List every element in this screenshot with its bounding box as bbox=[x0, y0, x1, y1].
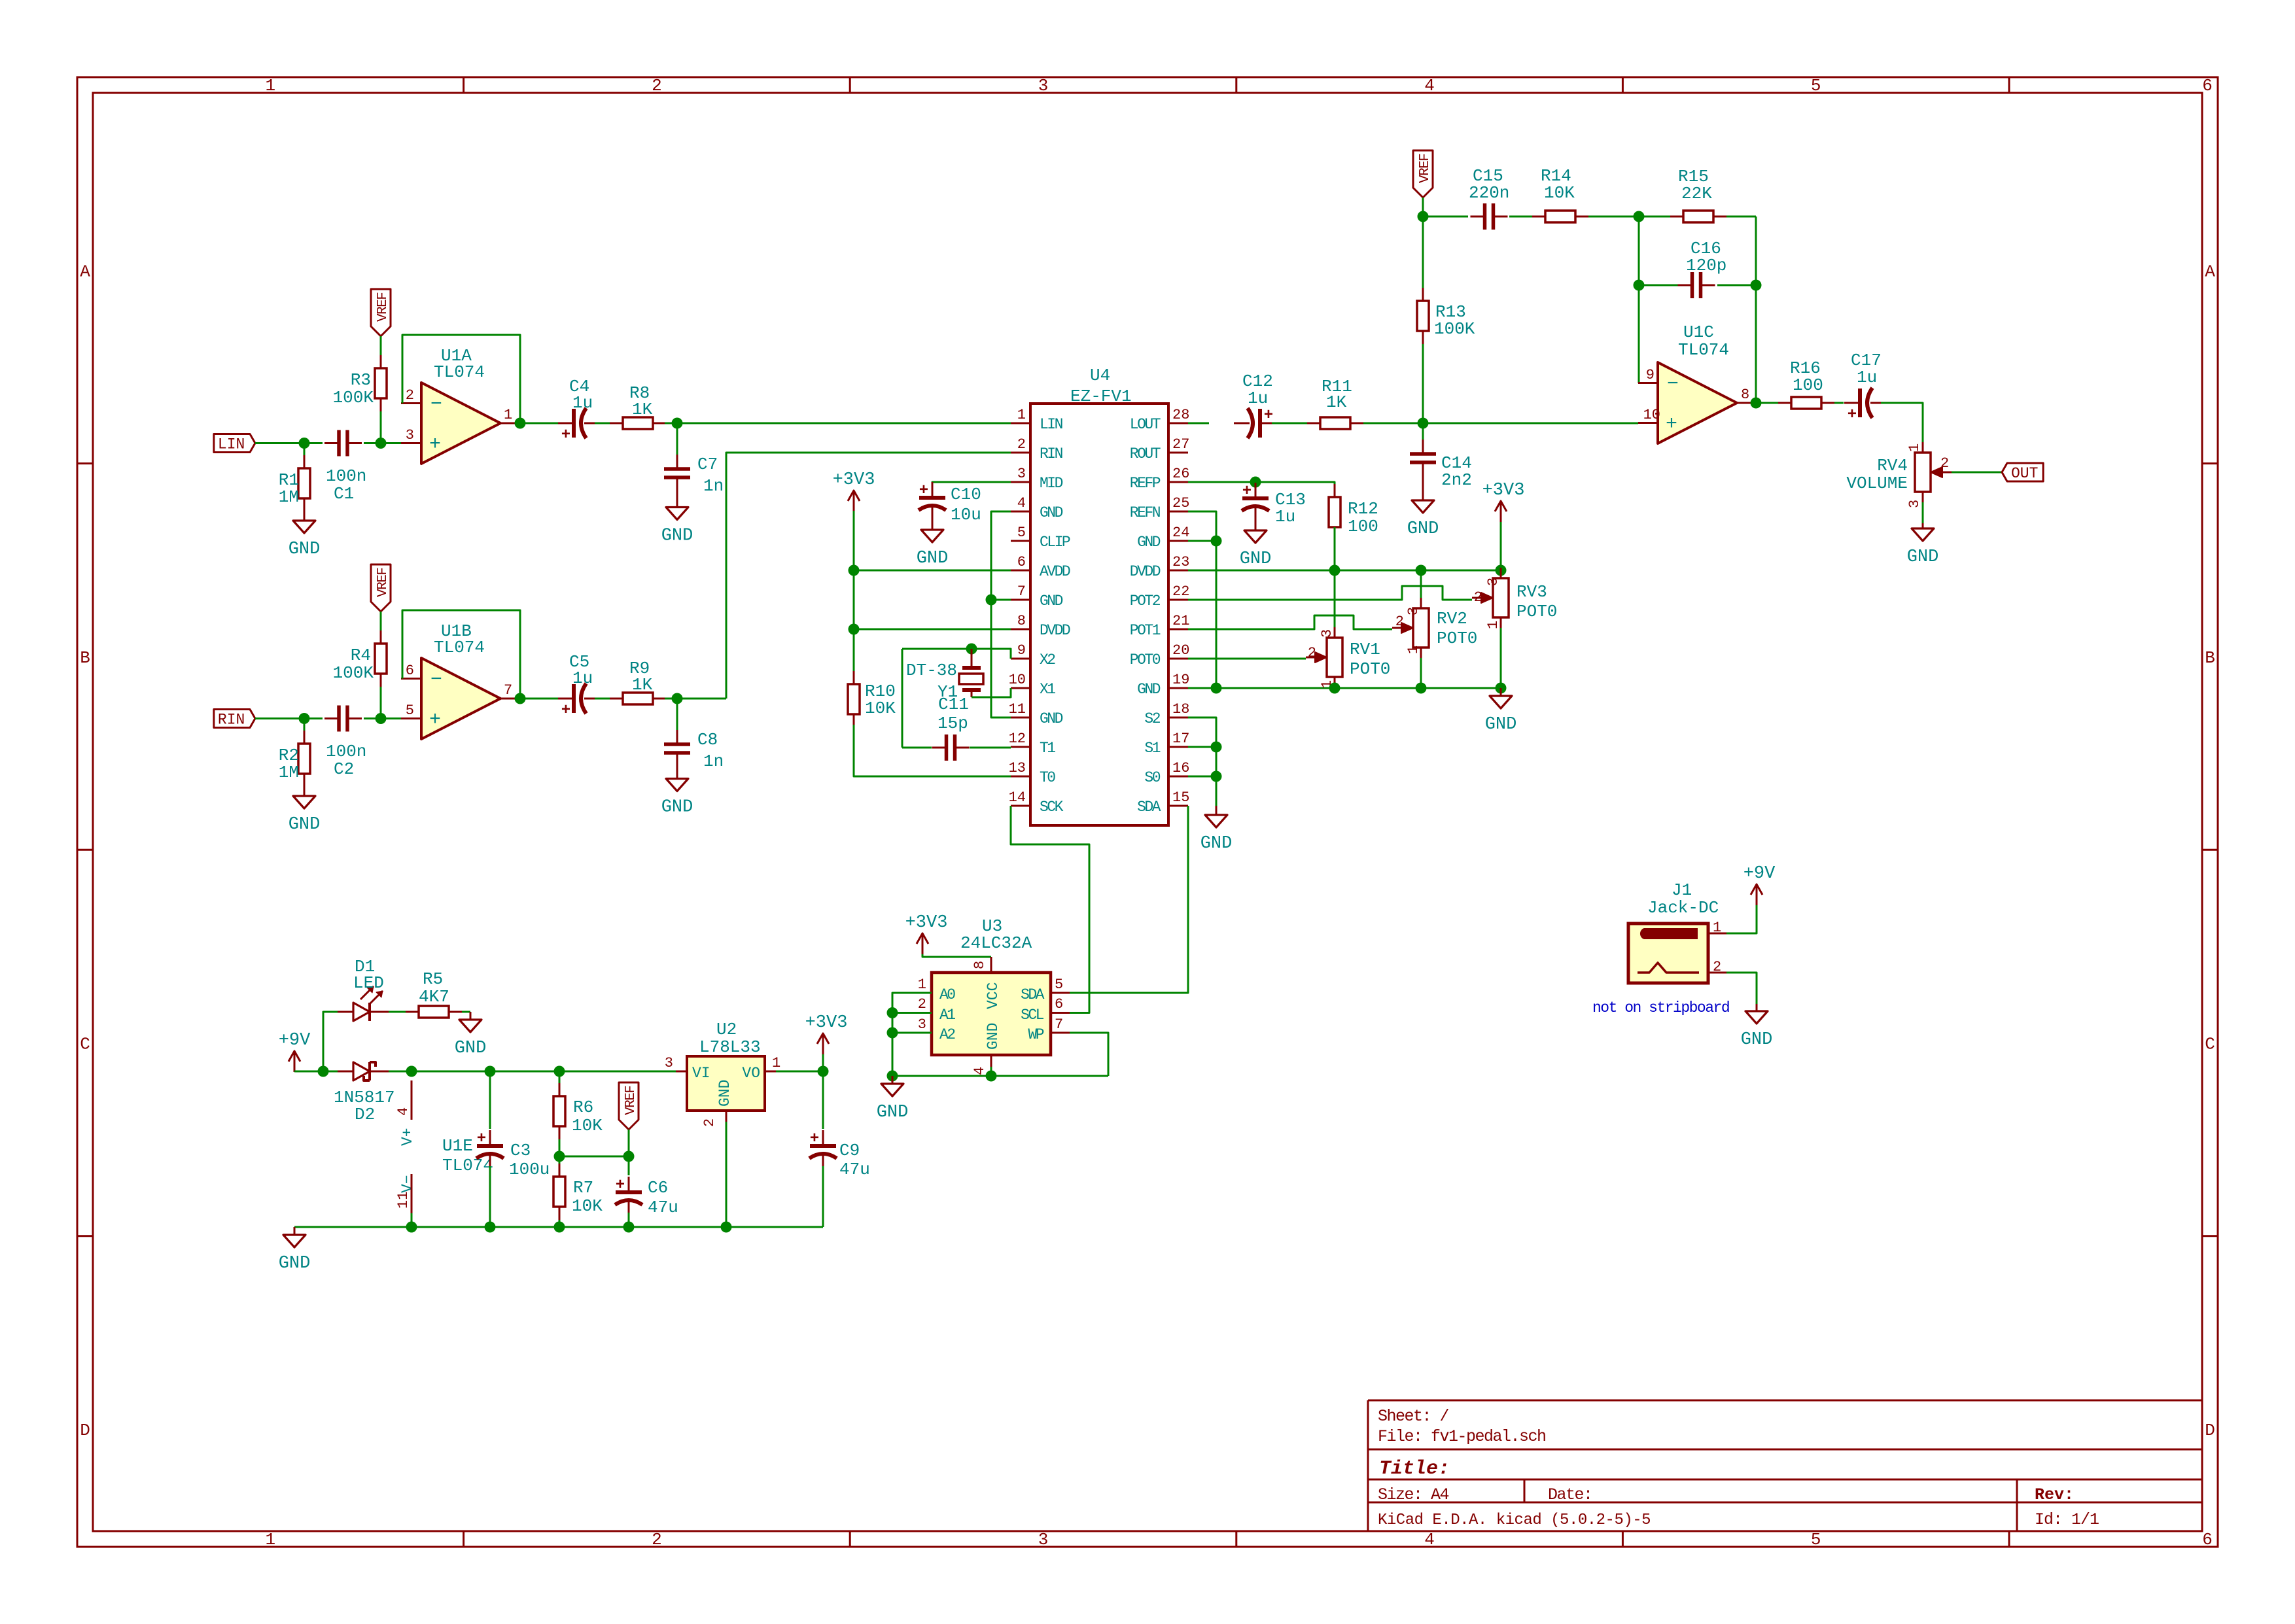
junction +3V3 out bbox=[818, 1066, 829, 1077]
svg-text:10u: 10u bbox=[951, 505, 981, 525]
ground below R2 bbox=[304, 787, 306, 796]
resistor R12 bbox=[1334, 484, 1336, 497]
J1 switch contact bbox=[1638, 963, 1699, 973]
svg-text:1: 1 bbox=[1906, 443, 1923, 452]
svg-text:GND: GND bbox=[289, 815, 321, 835]
svg-text:1u: 1u bbox=[1857, 368, 1877, 387]
junction R12 bottom bbox=[1329, 565, 1340, 576]
svg-text:+3V3: +3V3 bbox=[1482, 481, 1525, 500]
svg-text:GND: GND bbox=[455, 1039, 487, 1058]
svg-text:not on stripboard: not on stripboard bbox=[1592, 999, 1729, 1016]
svg-text:C7: C7 bbox=[697, 455, 718, 474]
svg-text:+: + bbox=[1242, 483, 1252, 500]
capacitor C13 (polarized) bbox=[1255, 482, 1257, 485]
svg-text:4: 4 bbox=[972, 1067, 988, 1075]
svg-text:DVDD: DVDD bbox=[1040, 622, 1070, 639]
svg-text:1M: 1M bbox=[279, 487, 299, 507]
resistor R13 bbox=[1422, 216, 1424, 288]
svg-text:VREF: VREF bbox=[376, 568, 391, 597]
svg-text:SDA: SDA bbox=[1137, 799, 1161, 816]
junction C16 left bbox=[1634, 280, 1645, 291]
svg-text:GND: GND bbox=[917, 549, 949, 568]
svg-text:+3V3: +3V3 bbox=[805, 1013, 848, 1033]
wire GND pin19 rail bbox=[1188, 687, 1501, 689]
capacitor C9 (polarized) bbox=[822, 1071, 824, 1129]
svg-text:15: 15 bbox=[1172, 789, 1189, 806]
svg-text:Date:: Date: bbox=[1548, 1485, 1592, 1504]
U1C pin 8 stub bbox=[1737, 402, 1756, 404]
wire R16 to C17 bbox=[1834, 402, 1844, 404]
svg-text:18: 18 bbox=[1172, 701, 1189, 717]
U4 pin 13 (T0) bbox=[1011, 776, 1030, 778]
svg-text:1u: 1u bbox=[1248, 389, 1268, 408]
svg-text:+: + bbox=[919, 482, 928, 500]
svg-text:MID: MID bbox=[1040, 475, 1063, 492]
svg-text:+: + bbox=[1264, 407, 1273, 424]
op-amp U1E power pins bbox=[411, 1080, 413, 1120]
svg-text:DVDD: DVDD bbox=[1130, 563, 1161, 580]
svg-text:1n: 1n bbox=[703, 476, 724, 496]
U3 pin 6 (SCL) bbox=[1051, 1012, 1070, 1014]
U4 pin 4 (GND) bbox=[1011, 511, 1030, 513]
wire J1 pin1 to +9V bbox=[1726, 905, 1757, 933]
svg-text:4K7: 4K7 bbox=[419, 987, 449, 1007]
U1B feedback wire bbox=[402, 610, 520, 699]
U4 pin 19 (GND) bbox=[1168, 687, 1188, 689]
junction AVDD bbox=[849, 565, 860, 576]
wire LED branch bbox=[323, 1012, 338, 1071]
svg-text:1: 1 bbox=[918, 976, 926, 993]
svg-text:GND: GND bbox=[1407, 519, 1439, 539]
svg-text:3: 3 bbox=[1405, 607, 1422, 615]
svg-text:RIN: RIN bbox=[1040, 445, 1062, 462]
capacitor C11 bbox=[932, 747, 947, 749]
left feedback leg to pin9 bbox=[1638, 216, 1640, 383]
svg-text:19: 19 bbox=[1172, 672, 1189, 688]
svg-text:+: + bbox=[1666, 413, 1677, 436]
junction R13/C14 node bbox=[1418, 418, 1429, 429]
U4 pin 8 (DVDD) bbox=[1011, 629, 1030, 631]
svg-text:GND: GND bbox=[716, 1080, 733, 1107]
ground below R1 bbox=[304, 511, 306, 521]
svg-text:20: 20 bbox=[1172, 642, 1189, 659]
global label OUT bbox=[2002, 463, 2043, 481]
wire C17 to RV4 bbox=[1881, 403, 1923, 442]
capacitor C1 bbox=[324, 442, 339, 444]
svg-text:100K: 100K bbox=[333, 663, 374, 683]
svg-text:120p: 120p bbox=[1686, 256, 1726, 275]
svg-text:D: D bbox=[80, 1421, 90, 1440]
power +3V3 (U3) bbox=[922, 933, 924, 954]
svg-text:1: 1 bbox=[1485, 621, 1501, 629]
svg-text:EZ-FV1: EZ-FV1 bbox=[1070, 387, 1132, 406]
svg-text:C9: C9 bbox=[839, 1141, 860, 1160]
U1A pin 2 stub bbox=[401, 402, 421, 404]
wire MID to C10 bbox=[932, 482, 1011, 484]
svg-text:V+: V+ bbox=[399, 1128, 416, 1146]
svg-text:VO: VO bbox=[742, 1065, 760, 1082]
svg-text:4: 4 bbox=[395, 1107, 412, 1116]
svg-text:RIN: RIN bbox=[218, 712, 245, 729]
wire RIN to C2 bbox=[255, 717, 323, 719]
svg-text:2: 2 bbox=[1017, 436, 1026, 453]
svg-text:A1: A1 bbox=[939, 1007, 955, 1024]
U4 pin 14 (SCK) bbox=[1011, 805, 1030, 807]
svg-text:14: 14 bbox=[1009, 789, 1026, 806]
wire AVDD pin6 bbox=[854, 570, 1011, 572]
junction R15 left bbox=[1634, 211, 1645, 222]
svg-text:RV3: RV3 bbox=[1516, 582, 1547, 602]
svg-text:4: 4 bbox=[1424, 76, 1435, 95]
capacitor C15 bbox=[1471, 216, 1485, 218]
svg-text:10: 10 bbox=[1009, 672, 1026, 688]
wire U3 ground rail bbox=[892, 1075, 1108, 1077]
resistor R1 bbox=[304, 455, 306, 468]
svg-text:2: 2 bbox=[1308, 645, 1316, 661]
svg-text:27: 27 bbox=[1172, 436, 1189, 453]
svg-text:POT2: POT2 bbox=[1130, 593, 1161, 610]
junction U1A output bbox=[515, 418, 526, 429]
svg-text:+: + bbox=[616, 1177, 625, 1194]
U1A pin 3 stub bbox=[401, 442, 421, 444]
junction C3 top bbox=[485, 1066, 496, 1077]
svg-text:1: 1 bbox=[772, 1055, 780, 1071]
junction crystal top bbox=[966, 644, 977, 655]
potentiometer RV4 VOLUME bbox=[1922, 442, 1924, 453]
svg-text:3: 3 bbox=[1038, 1530, 1049, 1549]
svg-text:10K: 10K bbox=[1544, 183, 1575, 203]
wire POT2 with hop bbox=[1188, 586, 1472, 600]
svg-text:13: 13 bbox=[1009, 760, 1026, 776]
wire U1B out to C5 bbox=[520, 698, 559, 700]
wire C12 to R11 bbox=[1272, 423, 1307, 424]
svg-text:2: 2 bbox=[1395, 613, 1404, 630]
wire RV4 wiper to OUT bbox=[1952, 472, 2002, 474]
junction pin19 chain bbox=[1211, 683, 1222, 694]
U3 pin 2 (A1) bbox=[913, 1012, 932, 1014]
svg-text:6: 6 bbox=[2202, 76, 2213, 95]
svg-text:1K: 1K bbox=[632, 400, 653, 419]
svg-text:10K: 10K bbox=[572, 1196, 603, 1216]
junction RV3 top bbox=[1496, 565, 1507, 576]
ground pots bbox=[1500, 688, 1502, 696]
junction C7 node bbox=[672, 418, 683, 429]
potentiometer RV1 bbox=[1334, 570, 1336, 627]
svg-text:LIN: LIN bbox=[218, 436, 245, 453]
U4 pin 17 (S1) bbox=[1168, 746, 1188, 748]
capacitor C4 (polarized) bbox=[558, 423, 574, 424]
svg-text:T1: T1 bbox=[1040, 740, 1055, 757]
svg-text:OUT: OUT bbox=[2011, 465, 2038, 482]
svg-text:22K: 22K bbox=[1681, 184, 1712, 203]
potentiometer RV3 bbox=[1500, 568, 1502, 578]
wire C1 to U1A pin3 bbox=[364, 442, 401, 444]
svg-text:7: 7 bbox=[1055, 1016, 1063, 1033]
svg-text:8: 8 bbox=[1017, 613, 1026, 629]
U4 pin 23 (DVDD) bbox=[1168, 570, 1188, 572]
svg-text:GND: GND bbox=[1907, 547, 1939, 567]
U4 pin 7 (GND) bbox=[1011, 599, 1030, 601]
wire pin4 to rail bbox=[990, 1067, 992, 1076]
wire crystal to X1 pin10 bbox=[972, 688, 1011, 697]
op-amp U1B bbox=[421, 658, 500, 739]
capacitor C8 bbox=[676, 699, 678, 731]
wire +9V rail bbox=[294, 1071, 338, 1073]
svg-text:File: fv1-pedal.sch: File: fv1-pedal.sch bbox=[1378, 1427, 1546, 1446]
svg-text:1: 1 bbox=[1405, 646, 1422, 654]
wire SDA to U3 SDA bbox=[1070, 806, 1188, 993]
op-amp U1A bbox=[421, 383, 500, 464]
svg-text:S2: S2 bbox=[1144, 710, 1160, 727]
svg-text:2: 2 bbox=[1474, 589, 1482, 606]
svg-text:6: 6 bbox=[1017, 554, 1026, 570]
capacitor C2 bbox=[324, 717, 339, 719]
svg-text:A: A bbox=[2205, 262, 2215, 281]
junction C6 top bbox=[623, 1151, 635, 1162]
right feedback leg bbox=[1755, 216, 1757, 403]
ground below C7 bbox=[676, 492, 678, 508]
svg-text:−: − bbox=[430, 394, 442, 416]
wire LIN to C1 bbox=[255, 442, 323, 444]
wire R14 to R15 bbox=[1588, 216, 1670, 218]
wire +3V3 to AVDD/DVDD rail bbox=[853, 511, 855, 671]
svg-text:Jack-DC: Jack-DC bbox=[1647, 898, 1719, 918]
svg-text:TL074: TL074 bbox=[442, 1156, 493, 1175]
power flag VREF (filter) bbox=[1413, 150, 1433, 198]
U1B pin 5 stub bbox=[401, 717, 421, 719]
svg-text:TL074: TL074 bbox=[434, 638, 485, 657]
svg-text:ROUT: ROUT bbox=[1130, 445, 1161, 462]
capacitor C5 (polarized) bbox=[558, 698, 574, 700]
global label RIN bbox=[214, 710, 255, 728]
wire R4 to node bbox=[380, 687, 382, 719]
resistor R4 bbox=[380, 631, 382, 644]
svg-text:5: 5 bbox=[1811, 1530, 1821, 1549]
wire C5 to R9 bbox=[595, 698, 610, 700]
wire R15 to right leg bbox=[1726, 216, 1756, 218]
wire U1A out to C4 bbox=[520, 423, 559, 424]
svg-text:B: B bbox=[80, 648, 90, 668]
power +3V3 (supply out) bbox=[822, 1033, 824, 1054]
svg-text:1K: 1K bbox=[632, 675, 653, 695]
U4 pin 2 (RIN) bbox=[1011, 452, 1030, 454]
junction R2 node bbox=[299, 713, 310, 724]
U4 pin 21 (POT1) bbox=[1168, 629, 1188, 631]
svg-text:3: 3 bbox=[1017, 466, 1026, 482]
title block bbox=[1368, 1400, 2202, 1402]
IC U3 24LC32A body bbox=[932, 973, 1051, 1055]
junction DVDD bbox=[849, 624, 860, 635]
svg-text:+: + bbox=[561, 426, 570, 444]
op-amp U1C bbox=[1658, 362, 1737, 443]
svg-text:LOUT: LOUT bbox=[1130, 416, 1161, 433]
svg-text:12: 12 bbox=[1009, 731, 1026, 747]
REFN/GND chain pins 25-24-19 bbox=[1188, 511, 1216, 688]
svg-text:C: C bbox=[2205, 1035, 2215, 1054]
capacitor C16 bbox=[1678, 285, 1692, 286]
junction R6/R7/VREF bbox=[554, 1151, 565, 1162]
svg-text:2: 2 bbox=[406, 387, 414, 404]
resistor R8 bbox=[610, 423, 623, 424]
svg-text:+: + bbox=[429, 434, 441, 456]
svg-text:DT-38: DT-38 bbox=[906, 661, 957, 680]
capacitor C7 bbox=[676, 423, 678, 455]
wire U2 GND to rail bbox=[726, 1122, 727, 1227]
svg-text:VOLUME: VOLUME bbox=[1846, 474, 1908, 493]
svg-text:Size: A4: Size: A4 bbox=[1378, 1485, 1449, 1504]
wire R3 to node bbox=[380, 411, 382, 443]
svg-text:47u: 47u bbox=[648, 1198, 678, 1217]
wire DVDD pin8 bbox=[854, 629, 1011, 631]
svg-text:L78L33: L78L33 bbox=[699, 1037, 761, 1057]
svg-text:RV1: RV1 bbox=[1350, 640, 1380, 659]
svg-text:SDA: SDA bbox=[1021, 986, 1045, 1003]
U1A feedback wire bbox=[402, 335, 520, 423]
svg-text:REFP: REFP bbox=[1130, 475, 1161, 492]
U4 pin 26 (REFP) bbox=[1168, 481, 1188, 483]
U4 pin 5 (CLIP) bbox=[1011, 540, 1030, 542]
ground below C14 bbox=[1422, 477, 1424, 500]
power +9V (supply) bbox=[294, 1051, 296, 1072]
svg-text:+: + bbox=[477, 1130, 486, 1148]
wire R2 drop bbox=[304, 719, 306, 731]
resistor R5 bbox=[406, 1011, 419, 1013]
svg-text:A2: A2 bbox=[939, 1026, 955, 1043]
svg-text:5: 5 bbox=[1055, 976, 1063, 993]
ground (jack) bbox=[1756, 1004, 1758, 1011]
U1A pin 1 stub bbox=[500, 423, 519, 424]
crystal Y1 DT-38 bbox=[971, 649, 973, 666]
junction R3 node bbox=[376, 438, 387, 449]
svg-text:28: 28 bbox=[1172, 407, 1189, 423]
wire C4 to R8 bbox=[595, 423, 610, 424]
svg-text:100n: 100n bbox=[326, 466, 366, 486]
svg-text:+3V3: +3V3 bbox=[905, 913, 948, 933]
wire R10 to T0 pin13 bbox=[854, 725, 1011, 776]
U4 pin 18 (S2) bbox=[1168, 717, 1188, 719]
wire C2 to U1B pin5 bbox=[364, 717, 401, 719]
svg-text:VI: VI bbox=[692, 1065, 710, 1082]
svg-text:C6: C6 bbox=[648, 1178, 668, 1198]
svg-text:+: + bbox=[810, 1130, 819, 1148]
wire R5 to ground bbox=[462, 1011, 470, 1013]
power flag VREF (R4) bbox=[371, 564, 391, 612]
svg-text:1n: 1n bbox=[703, 752, 724, 771]
capacitor C10 (polarized) bbox=[932, 482, 934, 498]
svg-text:REFN: REFN bbox=[1130, 504, 1160, 521]
svg-text:10K: 10K bbox=[865, 699, 896, 718]
U1B pin 7 stub bbox=[500, 698, 519, 700]
svg-text:C3: C3 bbox=[510, 1141, 531, 1160]
resistor R6 bbox=[559, 1071, 561, 1083]
svg-text:5: 5 bbox=[406, 702, 414, 719]
diode D1 LED bbox=[338, 1011, 353, 1013]
U4 pin 24 (GND) bbox=[1168, 540, 1188, 542]
svg-text:GND: GND bbox=[1040, 504, 1063, 521]
svg-text:3: 3 bbox=[665, 1055, 673, 1071]
svg-text:U2: U2 bbox=[716, 1020, 737, 1039]
svg-text:17: 17 bbox=[1172, 731, 1189, 747]
wire C15 to R14 bbox=[1509, 216, 1532, 218]
ground S chain bbox=[1216, 806, 1218, 815]
wire POT1 with hop bbox=[1188, 615, 1392, 629]
svg-text:Title:: Title: bbox=[1379, 1458, 1450, 1480]
U4 pin 20 (POT0) bbox=[1168, 658, 1188, 660]
wire C11 to T1 pin12 bbox=[970, 747, 1011, 749]
S2/S1/S0 chain to ground bbox=[1188, 717, 1216, 806]
svg-text:Sheet: /: Sheet: / bbox=[1378, 1407, 1449, 1426]
svg-text:GND: GND bbox=[1200, 834, 1233, 854]
svg-text:B: B bbox=[2205, 648, 2215, 668]
svg-text:4: 4 bbox=[1424, 1530, 1435, 1549]
svg-text:100K: 100K bbox=[1434, 319, 1475, 339]
junction U1B output bbox=[515, 693, 526, 704]
svg-text:Id: 1/1: Id: 1/1 bbox=[2035, 1510, 2099, 1529]
junction C16 right bbox=[1751, 280, 1762, 291]
svg-text:GND: GND bbox=[1485, 715, 1517, 734]
wire R12 to DVDD rail bbox=[1334, 527, 1336, 570]
connector J1 Jack-DC body bbox=[1628, 924, 1708, 983]
U4 pin 27 (ROUT) bbox=[1168, 452, 1188, 454]
junction C13 bbox=[1250, 477, 1261, 488]
U4 pin 25 (REFN) bbox=[1168, 511, 1188, 513]
svg-text:GND: GND bbox=[289, 540, 321, 559]
svg-text:+: + bbox=[561, 702, 570, 719]
svg-text:2: 2 bbox=[652, 1530, 662, 1549]
svg-text:LIN: LIN bbox=[1040, 416, 1062, 433]
svg-text:11: 11 bbox=[395, 1192, 412, 1209]
svg-text:A0: A0 bbox=[939, 986, 955, 1003]
svg-text:VREF: VREF bbox=[1418, 154, 1433, 183]
U4 pin 3 (MID) bbox=[1011, 481, 1030, 483]
junction C8 node bbox=[672, 693, 683, 704]
svg-text:16: 16 bbox=[1172, 760, 1189, 776]
svg-text:J1: J1 bbox=[1672, 880, 1692, 900]
wire DVDD pin23 rail bbox=[1188, 570, 1501, 572]
U4 pin 12 (T1) bbox=[1011, 746, 1030, 748]
svg-text:1K: 1K bbox=[1326, 392, 1347, 412]
capacitor C17 (polarized) bbox=[1844, 402, 1860, 404]
U3 pin 5 (SDA) bbox=[1051, 992, 1070, 994]
ground below C10 bbox=[932, 517, 934, 530]
resistor R11 bbox=[1307, 423, 1320, 424]
wire R13 to rail bbox=[1422, 344, 1424, 423]
svg-text:24LC32A: 24LC32A bbox=[960, 933, 1032, 953]
svg-text:1u: 1u bbox=[1275, 507, 1295, 527]
svg-text:1u: 1u bbox=[572, 668, 593, 688]
svg-text:5: 5 bbox=[1811, 76, 1821, 95]
wire U1C out to R16 bbox=[1756, 402, 1778, 404]
wire X2 rail bbox=[902, 649, 1011, 659]
power flag VREF (R3) bbox=[371, 289, 391, 336]
svg-text:R7: R7 bbox=[573, 1178, 593, 1198]
svg-text:GND: GND bbox=[279, 1254, 311, 1273]
svg-text:V−: V− bbox=[399, 1175, 416, 1193]
svg-text:1: 1 bbox=[504, 407, 512, 423]
junction LED branch bbox=[318, 1066, 329, 1077]
capacitor C3 (polarized) bbox=[489, 1071, 491, 1129]
wire A0/A1/A2 chain bbox=[892, 993, 932, 1076]
wire to C11 bbox=[902, 747, 932, 749]
svg-text:KiCad E.D.A. kicad (5.0.2-5): KiCad E.D.A. kicad (5.0.2-5)-5 bbox=[1378, 1512, 1651, 1529]
wire R11 to U1C pin10 bbox=[1363, 423, 1638, 424]
resistor R14 bbox=[1532, 216, 1545, 218]
svg-text:3: 3 bbox=[406, 427, 414, 443]
junction GND pin7 bbox=[986, 595, 997, 606]
U4 pin 11 (GND) bbox=[1011, 717, 1030, 719]
svg-text:GND: GND bbox=[1240, 549, 1272, 569]
svg-text:8: 8 bbox=[972, 961, 988, 969]
